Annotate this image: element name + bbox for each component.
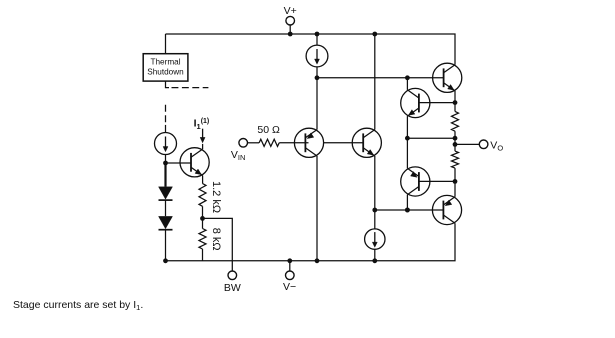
svg-text:V−: V− xyxy=(283,281,296,293)
svg-text:1.2 kΩ: 1.2 kΩ xyxy=(210,181,222,213)
svg-text:VO: VO xyxy=(490,139,503,152)
svg-text:Stage currents are set by I1.: Stage currents are set by I1. xyxy=(13,299,143,312)
svg-text:Thermal: Thermal xyxy=(150,58,180,67)
svg-text:VIN: VIN xyxy=(231,149,246,162)
svg-text:BW: BW xyxy=(224,282,241,294)
svg-text:Shutdown: Shutdown xyxy=(147,68,184,77)
svg-text:I1(1): I1(1) xyxy=(194,118,210,131)
svg-text:50 Ω: 50 Ω xyxy=(257,124,280,136)
svg-text:8 kΩ: 8 kΩ xyxy=(210,228,222,251)
svg-text:V+: V+ xyxy=(284,5,297,17)
